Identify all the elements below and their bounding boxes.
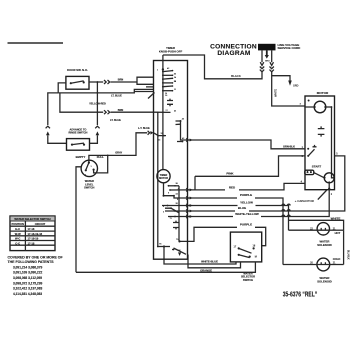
wire BLUE [188, 156, 345, 211]
connector arrow right rail [96, 131, 100, 135]
wire pink riser from RED exit [188, 176, 196, 190]
wire T6 contact [158, 246, 170, 248]
border artifact line top-left [8, 42, 64, 44]
svg-text:SOLENOID: SOLENOID [317, 280, 332, 284]
svg-text:24: 24 [174, 77, 176, 79]
svg-text:BRN: BRN [118, 109, 124, 112]
timer motor TM circle [157, 170, 170, 183]
timer contact row 3 [162, 78, 164, 80]
wire GRAY wls to timer [89, 133, 147, 163]
svg-text:GRD: GRD [293, 85, 299, 88]
svg-text:START: START [312, 164, 322, 168]
svg-text:SWITCH: SWITCH [243, 278, 253, 282]
node door junction [97, 92, 99, 94]
wire BRN to timer [111, 77, 154, 84]
svg-text:45: 45 [174, 111, 176, 113]
svg-text:C-C: C-C [15, 241, 20, 245]
wire PURPLE [188, 198, 284, 265]
water selector switch S1 box [230, 232, 261, 262]
wire hot solenoid left [289, 229, 318, 231]
timer contact row 1 [162, 71, 164, 73]
node 19 [238, 254, 240, 256]
cold solenoid coil marks [317, 262, 330, 264]
exit arrow white-yellow [190, 215, 193, 218]
node timer feed [162, 68, 164, 70]
wire motor internal rail [332, 107, 334, 178]
cold water solenoid L3 [317, 258, 330, 271]
svg-text:MOTOR: MOTOR [159, 177, 168, 180]
hop marks rails [282, 204, 290, 216]
wire WHITE neutral [289, 220, 344, 230]
wire capacitor pointer [318, 190, 327, 200]
rinse switch arm [72, 143, 84, 145]
node 27 right [162, 112, 164, 114]
wire WHITE service to motor [272, 72, 305, 106]
svg-text:3,098,372 3,175,299: 3,098,372 3,175,299 [13, 281, 42, 285]
label WHITE-YELLOW [233, 214, 261, 218]
svg-text:17-18: 17-18 [28, 227, 35, 231]
timer contact row 2 [162, 74, 164, 76]
timer contact yellow feed [167, 205, 169, 207]
contact tick motor [313, 145, 317, 147]
node 17 [238, 247, 240, 249]
svg-text:DOOR SW. N.O.: DOOR SW. N.O. [67, 68, 88, 72]
wire yellow-red to timer [111, 111, 154, 113]
timer inner contact ticks [167, 99, 173, 101]
plug ground pin arrow [265, 50, 269, 58]
wire start winding to pin2 [328, 182, 330, 188]
node W [173, 249, 175, 251]
wire PURPLE2 timer T5 to selector [180, 227, 266, 245]
motor ground dot [308, 100, 310, 102]
wire PINK [195, 156, 305, 176]
svg-text:8: 8 [168, 193, 169, 195]
svg-text:GRD: GRD [265, 61, 270, 63]
node motor internal rail [331, 106, 333, 108]
node wls left [85, 169, 87, 171]
wire right rail up to brn junction [96, 82, 98, 125]
node 13 [157, 135, 159, 137]
node motor pin3 [307, 155, 309, 157]
svg-text:WATER SELECTOR SWITCH: WATER SELECTOR SWITCH [14, 217, 50, 221]
svg-text:LT. BLUE: LT. BLUE [110, 119, 121, 122]
wire timer rail left inner [157, 112, 159, 246]
motor centrifugal contact lower [318, 134, 325, 136]
node start bottom [328, 181, 330, 183]
node tm bottom [163, 195, 165, 197]
timer contact row 6 [162, 90, 164, 92]
connector chevrons L1 [260, 67, 264, 69]
timer contact row 5 [162, 86, 164, 88]
svg-text:BRN: BRN [118, 79, 124, 82]
wire door output BRN [89, 81, 103, 83]
table row 3 [10, 240, 55, 242]
label PURPLE [237, 195, 255, 199]
timer contact blue feed [170, 207, 172, 209]
svg-text:BLU-BLK: BLU-BLK [346, 250, 348, 260]
wls arm [86, 163, 89, 170]
svg-text:WHITE-BLUE: WHITE-BLUE [201, 260, 218, 264]
wire GRD branch to motor [272, 76, 290, 81]
node 18 [253, 247, 255, 249]
svg-text:12: 12 [161, 133, 163, 135]
timer contact row 4 [162, 82, 164, 84]
svg-text:25: 25 [174, 81, 176, 83]
motor main winding circle [314, 101, 326, 113]
wire WHITE-YELLOW [188, 189, 330, 217]
svg-text:COLD: COLD [333, 257, 341, 261]
svg-text:SERVICE CORD: SERVICE CORD [278, 46, 302, 50]
svg-text:W-C: W-C [15, 237, 20, 241]
svg-text:+ CAPACITOR: + CAPACITOR [295, 199, 314, 203]
plug pin N [271, 50, 273, 62]
svg-text:CIRCUIT: CIRCUIT [35, 222, 46, 226]
node 13b [163, 135, 165, 137]
svg-text:POSITION: POSITION [11, 222, 24, 226]
svg-text:HOT: HOT [335, 231, 341, 235]
hot solenoid coil marks [317, 228, 329, 230]
hot water solenoid L2 [317, 223, 329, 235]
timer mid contact b red feed [169, 189, 171, 191]
node brn junction [97, 81, 99, 83]
svg-text:L.T. BLUE: L.T. BLUE [138, 127, 150, 130]
wire yellow-red rail [60, 93, 103, 112]
wire WHITE-BLUE timer to selector [164, 247, 236, 265]
table row 2 [10, 235, 55, 237]
node gray junction [107, 155, 109, 157]
svg-text:PINK: PINK [226, 171, 234, 175]
svg-text:W-W: W-W [15, 232, 21, 236]
wire RED [195, 183, 305, 190]
timer T box [154, 61, 188, 260]
node wls right [93, 169, 95, 171]
wire left rail to rinse connector [48, 93, 58, 125]
connector chevron right rail [95, 126, 99, 128]
svg-text:3: 3 [163, 212, 164, 214]
svg-text:WHITE: WHITE [274, 89, 277, 97]
door switch S2 box [66, 76, 89, 89]
node main left [314, 106, 316, 108]
timer bottom arm W [172, 248, 186, 254]
wire 27 contact [154, 111, 171, 113]
connector arrow left rail [46, 131, 50, 135]
connector chevron gray [148, 131, 150, 135]
label YELLOW [238, 203, 256, 207]
svg-text:LT. BLUE: LT. BLUE [111, 95, 122, 98]
wire ORN-BLK timer to motor pin1 [188, 140, 306, 149]
node T6b [157, 246, 159, 248]
connector chevrons brn [104, 80, 110, 84]
wire YELLOW [188, 206, 289, 231]
wire wls empty contact down [76, 167, 81, 272]
start winding circle [324, 173, 334, 183]
svg-text:M: M [255, 256, 257, 259]
svg-text:4,114,381 4,348,083: 4,114,381 4,348,083 [13, 292, 42, 296]
node rinse left [71, 144, 73, 146]
connector chevrons yellow-red [104, 110, 110, 114]
wire wls full contact [94, 155, 108, 173]
arrow W down [178, 252, 181, 256]
wire timer right rail [178, 186, 180, 242]
wire 42b stub [177, 141, 183, 143]
svg-text:5: 5 [163, 206, 164, 208]
timer contact wy feed [174, 216, 176, 218]
svg-text:BLUE: BLUE [238, 206, 246, 210]
table column divider [24, 221, 26, 251]
table subheader row [10, 225, 55, 227]
svg-text:15: 15 [165, 93, 167, 95]
label RED [225, 187, 239, 191]
exit arrow purple [190, 197, 193, 200]
wire start switch to start winding [314, 173, 325, 178]
start switch box [305, 170, 314, 174]
svg-text:3,091,109 3,090,222: 3,091,109 3,090,222 [13, 271, 42, 275]
wire to rinse switch left [48, 135, 67, 143]
svg-text:EMPTY: EMPTY [76, 155, 86, 159]
svg-text:11: 11 [174, 89, 176, 91]
svg-text:ORN-BLK: ORN-BLK [283, 144, 295, 148]
svg-text:SOLENOID: SOLENOID [317, 243, 332, 247]
door switch arm [71, 81, 84, 83]
node rinse right [83, 144, 85, 146]
svg-text:3,091,214 3,086,379: 3,091,214 3,086,379 [13, 265, 42, 269]
water selector table box [10, 216, 55, 251]
connector arrow gray [150, 131, 153, 135]
wire 13 contact [154, 133, 167, 136]
svg-text:3,098,068 3,112,095: 3,098,068 3,112,095 [13, 276, 42, 280]
node 42b [182, 141, 184, 143]
exit arrow orn-blk [190, 139, 193, 142]
node M [249, 256, 251, 258]
svg-text:BLACK: BLACK [231, 74, 241, 78]
svg-text:SWITCH: SWITCH [84, 186, 94, 190]
wire BLU-BLK rail between solenoids [343, 230, 345, 264]
grd arrowhead [288, 81, 292, 86]
selector arm 19-M [239, 255, 250, 258]
wire door feed [58, 83, 66, 93]
timer diagonal arm lower left [148, 93, 155, 99]
table row 4 [10, 244, 55, 246]
svg-text:35-6376 “REL”: 35-6376 “REL” [283, 292, 317, 299]
exit arrow red [190, 188, 193, 191]
plug P1 line voltage service cord [258, 44, 276, 51]
node start left [324, 177, 326, 179]
connector chevron left rail [46, 126, 50, 128]
connector chevrons N [270, 67, 274, 69]
svg-text:PURPLE: PURPLE [240, 193, 252, 197]
svg-text:17-18-19-43: 17-18-19-43 [28, 232, 43, 236]
svg-text:YELLOW: YELLOW [240, 201, 253, 205]
node T5 [178, 240, 180, 242]
motor centrifugal contact upper [318, 126, 325, 128]
wire hot solenoid right [329, 229, 343, 231]
svg-text:T1: T1 [170, 218, 172, 220]
exit arrow blue [190, 210, 193, 213]
wire main winding stub right [325, 106, 331, 108]
wire rinse right feed [90, 135, 98, 143]
node door right [83, 81, 85, 83]
table row 1 [10, 230, 55, 232]
wire 43 rail to orn-blk exit [181, 121, 188, 140]
motor M1 box [305, 96, 335, 190]
table header [10, 216, 55, 221]
svg-text:RINSE SWITCH: RINSE SWITCH [69, 131, 88, 135]
svg-text:17-18: 17-18 [28, 241, 35, 245]
svg-text:THE FOLLOWING PATENTS: THE FOLLOWING PATENTS [8, 260, 55, 264]
node 43 [180, 120, 182, 122]
node door left [70, 82, 72, 84]
svg-text:17-18-19: 17-18-19 [28, 237, 39, 241]
timer contact purple feed [173, 195, 175, 197]
label BLUE [235, 208, 249, 212]
node motor pin1 [307, 148, 309, 150]
node 27 left [157, 112, 159, 114]
contact 43 tick [176, 121, 181, 125]
wire BLACK from plug L1 to timer top [163, 55, 262, 79]
wire timer feed rail [162, 55, 164, 170]
svg-text:PURPLE: PURPLE [240, 223, 252, 227]
svg-text:H-C: H-C [15, 227, 20, 231]
label PURPLE 2 [237, 225, 255, 229]
wire LT.BLUE to timer [58, 87, 153, 93]
wire main winding stub left [305, 106, 315, 107]
wire cold solenoid left [283, 264, 317, 266]
svg-text:KNOB-PUSH OFF: KNOB-PUSH OFF [159, 50, 183, 54]
svg-text:COVERED BY ONE OR MORE OF: COVERED BY ONE OR MORE OF [8, 255, 64, 259]
wire ORANGE timer to selector [188, 255, 241, 268]
svg-text:W: W [179, 250, 181, 252]
svg-text:WHITE: WHITE [331, 217, 341, 221]
advance to rinse switch S3 box [67, 139, 90, 151]
svg-text:MOTOR: MOTOR [317, 91, 329, 95]
timer mid contact a [168, 185, 170, 187]
node pin2 [328, 188, 330, 190]
svg-text:DIAGRAM: DIAGRAM [217, 50, 251, 57]
wire cold solenoid right [330, 264, 344, 266]
selector arm 17-18 [239, 248, 252, 253]
svg-text:3,102,412 3,197,983: 3,102,412 3,197,983 [13, 287, 42, 291]
svg-text:GRAY: GRAY [115, 152, 122, 155]
exit arrow yellow [190, 204, 193, 207]
svg-text:WHITE-YELLOW: WHITE-YELLOW [235, 212, 259, 216]
node T6 [163, 245, 165, 247]
timer contact blue feed2 [174, 210, 176, 212]
svg-text:1: 1 [157, 70, 158, 72]
wire timer motor bottom [164, 183, 175, 196]
svg-text:RED: RED [229, 185, 236, 189]
motor switch arm 1-3 [308, 149, 314, 156]
plug pin L1 [261, 50, 263, 62]
start contact marks [307, 171, 312, 173]
node main right [324, 106, 326, 108]
wire common long water level to selector [76, 262, 255, 272]
water level switch S4 circle [81, 160, 97, 176]
node wls top [88, 162, 90, 164]
